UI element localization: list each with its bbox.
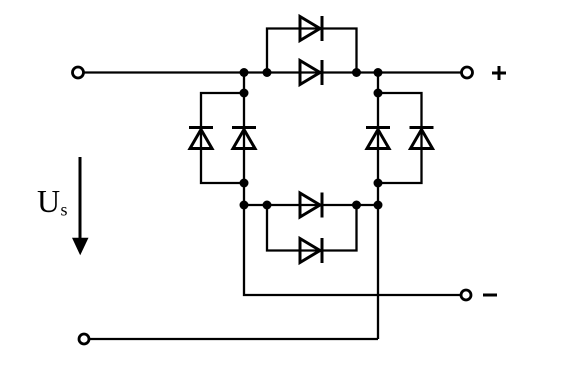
svg-text:U: U <box>37 183 60 219</box>
svg-text:s: s <box>61 200 68 220</box>
